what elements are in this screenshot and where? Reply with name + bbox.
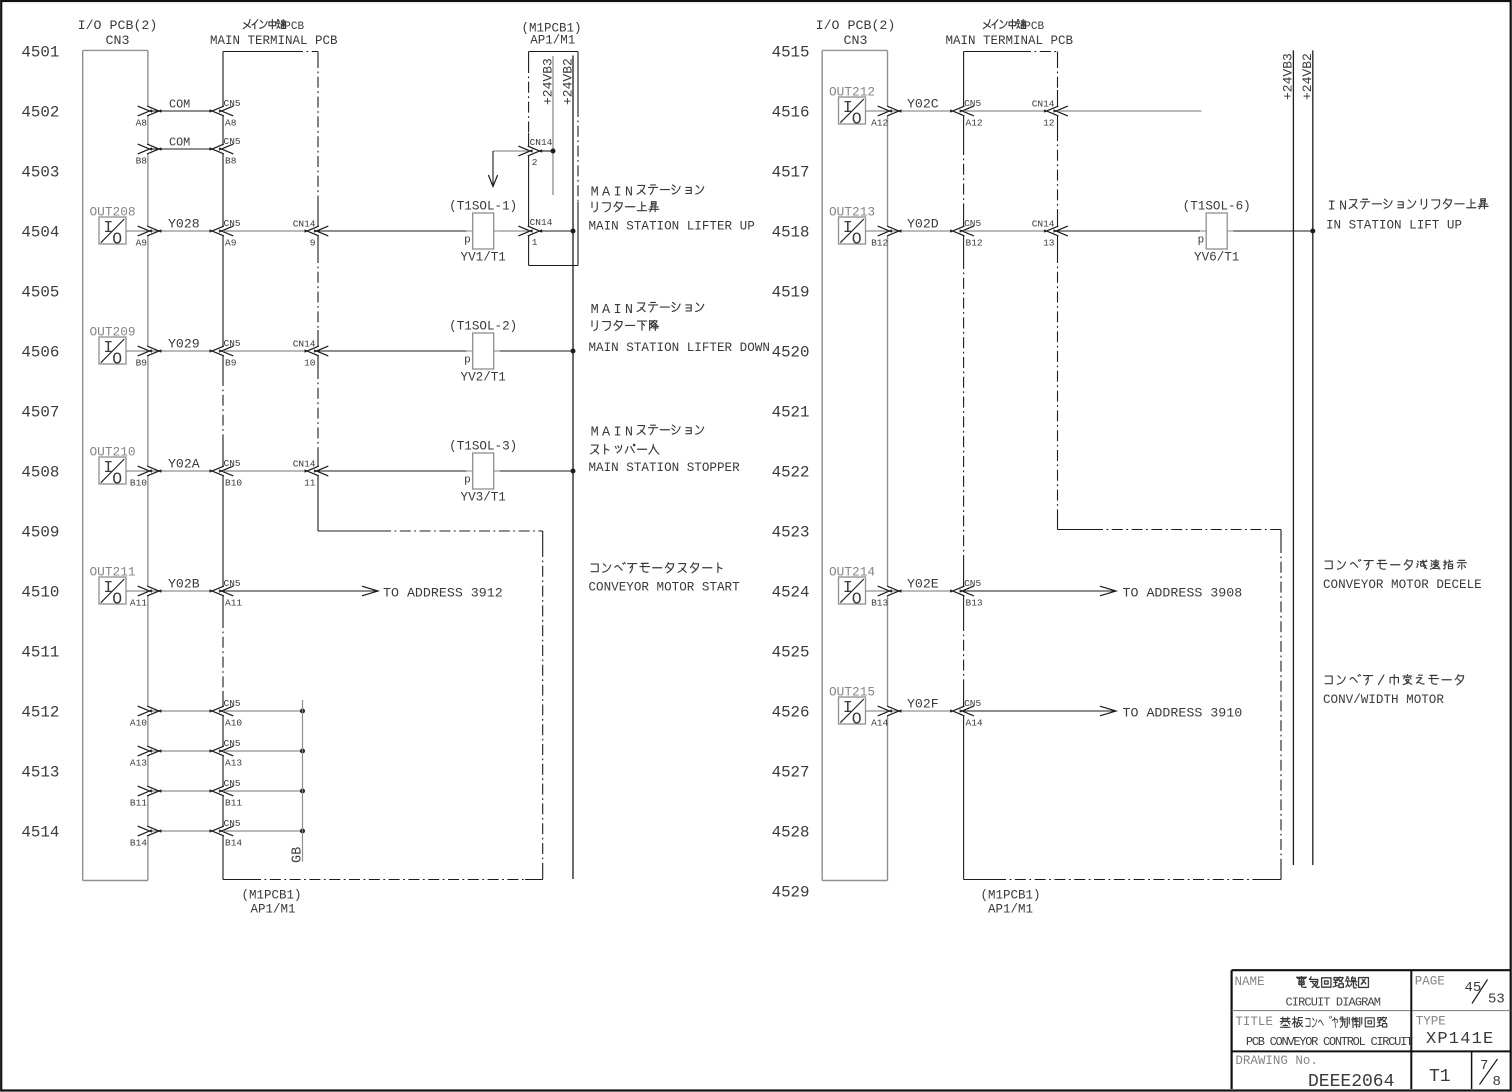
svg-text:p: p — [464, 474, 471, 486]
svg-text:53: 53 — [1488, 991, 1505, 1007]
svg-text:4507: 4507 — [21, 403, 59, 421]
svg-text:CN5: CN5 — [964, 698, 981, 709]
main terminal PCB CN14 edge right — [1057, 52, 1059, 530]
svg-text:N: N — [625, 303, 633, 318]
svg-text:(M1PCB1): (M1PCB1) — [981, 889, 1041, 903]
M1PCB1 AP1/M1 bracket left (dash-dot outline) — [223, 531, 543, 880]
wire CN5 A9 to CN14 9 — [223, 219, 328, 249]
svg-text:4501: 4501 — [21, 43, 59, 61]
svg-text:13: 13 — [1043, 238, 1055, 249]
svg-text:CN14: CN14 — [293, 459, 316, 470]
I/O driver OUT213 — [829, 204, 875, 248]
label in station lift up — [1326, 199, 1488, 233]
main terminal PCB top edge left — [223, 51, 318, 53]
svg-text:TYPE: TYPE — [1416, 1014, 1446, 1028]
svg-text:(T1SOL-3): (T1SOL-3) — [449, 440, 517, 454]
svg-text:M: M — [591, 185, 599, 200]
main terminal PCB top edge right — [964, 51, 1058, 53]
svg-text:A14: A14 — [966, 718, 983, 729]
wire B14 to GB — [130, 818, 305, 849]
svg-text:AP1/M1: AP1/M1 — [530, 34, 575, 48]
wire A13 to GB — [130, 738, 305, 769]
I/O driver OUT214 — [829, 564, 875, 608]
svg-text:O: O — [852, 709, 862, 728]
svg-text:O: O — [112, 229, 122, 248]
label conveyor motor decele — [1323, 559, 1482, 592]
net +24VB3 right — [1281, 50, 1296, 865]
M1PCB1 AP1/M1 box top left — [522, 22, 582, 266]
wire YV1/T1 to AP1/M1 CN14 1 — [500, 217, 576, 248]
wire CN5 B12 to CN14 13 — [964, 219, 1068, 249]
svg-text:Y02A: Y02A — [168, 457, 200, 472]
svg-text:7: 7 — [1480, 1058, 1488, 1074]
label main station stopper — [589, 425, 741, 475]
svg-text:YV2/T1: YV2/T1 — [461, 371, 506, 385]
main terminal PCB header right — [946, 20, 1074, 48]
svg-text:CN14: CN14 — [293, 219, 316, 230]
svg-text:CONVEYOR MOTOR DECELE: CONVEYOR MOTOR DECELE — [1323, 578, 1482, 592]
svg-text:TO ADDRESS 3912: TO ADDRESS 3912 — [383, 586, 503, 601]
wire Y029 — [126, 337, 241, 369]
svg-text:CN5: CN5 — [964, 218, 981, 229]
svg-text:AP1/M1: AP1/M1 — [988, 903, 1033, 917]
svg-text:4514: 4514 — [21, 823, 59, 841]
svg-text:O: O — [852, 109, 862, 128]
main terminal PCB CN5 edge left — [222, 52, 224, 880]
svg-text:+24VB2: +24VB2 — [1300, 53, 1315, 100]
label conv/width motor — [1323, 674, 1464, 707]
svg-text:CN14: CN14 — [1032, 219, 1055, 230]
net GB — [291, 700, 306, 863]
wire +24VB2 CN14 2 feed with down arrow — [488, 137, 555, 186]
svg-text:I: I — [613, 303, 621, 318]
svg-text:4521: 4521 — [772, 403, 810, 421]
svg-text:MAIN TERMINAL PCB: MAIN TERMINAL PCB — [210, 34, 338, 48]
I/O driver OUT209 — [90, 324, 136, 368]
wire CN5 A14 to address 3910 — [964, 706, 1243, 721]
svg-text:TITLE: TITLE — [1235, 1015, 1273, 1029]
svg-text:CN5: CN5 — [224, 338, 241, 349]
svg-text:IN STATION LIFT UP: IN STATION LIFT UP — [1326, 218, 1462, 232]
svg-text:GB: GB — [291, 847, 306, 863]
wire Y02F — [866, 697, 983, 729]
svg-text:PCB CONVEYOR CONTROL CIRCUIT: PCB CONVEYOR CONTROL CIRCUIT — [1246, 1035, 1413, 1049]
title block — [1232, 970, 1511, 1092]
label main station lifter down — [589, 302, 770, 354]
solenoid T1SOL-6 YV6/T1 — [1183, 200, 1251, 265]
svg-text:4527: 4527 — [772, 763, 810, 781]
I/O driver OUT212 — [829, 84, 875, 128]
svg-text:B9: B9 — [225, 358, 237, 369]
svg-text:B13: B13 — [966, 598, 983, 609]
wire A10 to GB — [130, 698, 305, 729]
svg-text:B12: B12 — [966, 238, 983, 249]
svg-text:A10: A10 — [225, 718, 242, 729]
svg-text:A8: A8 — [136, 118, 148, 129]
svg-text:A: A — [602, 185, 611, 200]
svg-text:A9: A9 — [136, 238, 148, 249]
svg-text:4520: 4520 — [772, 343, 810, 361]
svg-text:4510: 4510 — [21, 583, 59, 601]
wire B11 to GB — [130, 778, 305, 809]
svg-text:Y02D: Y02D — [907, 217, 939, 232]
svg-text:4505: 4505 — [21, 283, 59, 301]
wire Y02B — [126, 577, 242, 609]
svg-text:4526: 4526 — [772, 703, 810, 721]
wire CN14 13 to solenoid YV6/T1 — [1058, 230, 1201, 232]
svg-text:XP141E: XP141E — [1426, 1030, 1494, 1049]
svg-text:YV6/T1: YV6/T1 — [1194, 251, 1239, 265]
svg-text:+24VB3: +24VB3 — [1281, 53, 1296, 100]
svg-text:CN14: CN14 — [530, 137, 553, 148]
svg-text:4518: 4518 — [772, 223, 810, 241]
svg-text:4513: 4513 — [21, 763, 59, 781]
svg-text:CN14: CN14 — [293, 339, 316, 350]
svg-text:4508: 4508 — [21, 463, 59, 481]
svg-text:TO ADDRESS 3910: TO ADDRESS 3910 — [1123, 706, 1243, 721]
svg-text:4511: 4511 — [21, 643, 59, 661]
svg-text:CN5: CN5 — [224, 818, 241, 829]
svg-text:A11: A11 — [130, 598, 147, 609]
svg-text:I: I — [1328, 200, 1336, 215]
svg-text:CONVEYOR MOTOR START: CONVEYOR MOTOR START — [589, 581, 741, 595]
I/O PCB(2) CN3 connector box left — [78, 18, 158, 881]
I/O PCB(2) CN3 connector box right — [816, 18, 896, 881]
net +24VB3 left — [540, 56, 555, 195]
svg-text:CN5: CN5 — [224, 136, 241, 147]
wire COM A8 — [136, 98, 241, 129]
svg-text:p: p — [464, 354, 471, 366]
net number column right (4515-4529) — [772, 43, 810, 901]
svg-text:B14: B14 — [130, 838, 147, 849]
svg-text:4522: 4522 — [772, 463, 810, 481]
wire Y02D — [866, 217, 983, 249]
svg-text:MAIN STATION STOPPER: MAIN STATION STOPPER — [589, 461, 741, 475]
svg-text:A11: A11 — [225, 598, 242, 609]
svg-text:NAME: NAME — [1235, 975, 1265, 989]
svg-text:9: 9 — [310, 238, 316, 249]
main terminal PCB CN14 edge left — [317, 52, 319, 532]
svg-text:CN5: CN5 — [964, 578, 981, 589]
svg-text:TO ADDRESS 3908: TO ADDRESS 3908 — [1123, 586, 1243, 601]
svg-text:CONV/WIDTH MOTOR: CONV/WIDTH MOTOR — [1323, 693, 1444, 707]
svg-text:A13: A13 — [225, 758, 242, 769]
svg-text:1: 1 — [532, 237, 538, 248]
svg-text:12: 12 — [1043, 118, 1055, 129]
svg-text:YV1/T1: YV1/T1 — [461, 251, 506, 265]
svg-text:AP1/M1: AP1/M1 — [251, 903, 296, 917]
svg-text:(T1SOL-6): (T1SOL-6) — [1183, 200, 1251, 214]
svg-text:COM: COM — [169, 136, 190, 150]
svg-text:O: O — [112, 349, 122, 368]
svg-text:O: O — [852, 589, 862, 608]
svg-text:O: O — [112, 469, 122, 488]
svg-text:O: O — [112, 589, 122, 608]
svg-text:p: p — [464, 234, 471, 246]
svg-text:4529: 4529 — [772, 883, 810, 901]
wire Y02A — [126, 457, 242, 489]
I/O driver OUT211 — [90, 564, 136, 608]
svg-text:CN5: CN5 — [224, 98, 241, 109]
svg-text:Y02E: Y02E — [907, 577, 939, 592]
svg-text:(M1PCB1): (M1PCB1) — [242, 889, 302, 903]
wire CN14 11 to solenoid YV3/T1 — [318, 470, 467, 472]
net +24VB2 right — [1300, 50, 1315, 865]
label main station lifter up — [589, 185, 755, 234]
svg-text:B10: B10 — [225, 478, 242, 489]
M1PCB1 AP1/M1 bracket right (dash-dot outline) — [964, 530, 1281, 880]
svg-text:4517: 4517 — [772, 163, 810, 181]
I/O driver OUT215 — [829, 684, 875, 728]
wire Y02C — [866, 97, 983, 129]
svg-text:M: M — [591, 303, 599, 318]
svg-text:A14: A14 — [871, 718, 888, 729]
solenoid T1SOL-1 YV1/T1 — [449, 200, 517, 265]
svg-text:4524: 4524 — [772, 583, 810, 601]
svg-text:PCB: PCB — [1024, 21, 1044, 33]
svg-text:A12: A12 — [966, 118, 983, 129]
svg-text:p: p — [1198, 234, 1205, 246]
svg-text:B8: B8 — [225, 156, 237, 167]
svg-text:PCB: PCB — [284, 21, 304, 33]
svg-text:11: 11 — [304, 478, 316, 489]
solenoid T1SOL-3 YV3/T1 — [449, 440, 517, 505]
svg-text:4515: 4515 — [772, 43, 810, 61]
svg-text:CN5: CN5 — [224, 738, 241, 749]
I/O driver OUT210 — [90, 444, 136, 488]
svg-text:DEEE2064: DEEE2064 — [1308, 1072, 1394, 1092]
svg-text:4525: 4525 — [772, 643, 810, 661]
svg-text:N: N — [1339, 200, 1347, 215]
svg-text:B11: B11 — [130, 798, 147, 809]
M1PCB1 AP1/M1 bottom label left — [242, 889, 302, 917]
svg-text:CN5: CN5 — [224, 458, 241, 469]
wire CN5 A11 to address 3912 — [223, 586, 503, 601]
svg-text:B8: B8 — [136, 156, 148, 167]
svg-text:N: N — [625, 185, 633, 200]
svg-text:M: M — [591, 426, 599, 441]
svg-text:(T1SOL-2): (T1SOL-2) — [449, 320, 517, 334]
svg-text:+24VB3: +24VB3 — [540, 58, 555, 105]
svg-text:CIRCUIT DIAGRAM: CIRCUIT DIAGRAM — [1286, 995, 1381, 1009]
svg-text:4516: 4516 — [772, 103, 810, 121]
svg-text:+24VB2: +24VB2 — [560, 58, 575, 105]
svg-text:PAGE: PAGE — [1415, 974, 1445, 988]
svg-text:CN14: CN14 — [530, 217, 553, 228]
svg-text:A9: A9 — [225, 238, 237, 249]
svg-text:A13: A13 — [130, 758, 147, 769]
wire YV6/T1 to +24VB2 right — [1233, 229, 1315, 234]
svg-text:N: N — [625, 426, 633, 441]
wire CN14 10 to solenoid YV2/T1 — [318, 350, 467, 352]
svg-text:B9: B9 — [136, 358, 148, 369]
svg-text:B10: B10 — [130, 478, 147, 489]
wire CN14 9 to solenoid YV1/T1 — [318, 230, 467, 232]
svg-text:B14: B14 — [225, 838, 242, 849]
wire CN14 12 stub — [1058, 110, 1202, 112]
svg-text:I: I — [613, 426, 621, 441]
svg-text:Y02B: Y02B — [168, 577, 200, 592]
svg-text:CN5: CN5 — [224, 218, 241, 229]
svg-text:CN5: CN5 — [964, 98, 981, 109]
svg-text:A: A — [602, 303, 611, 318]
svg-text:I: I — [613, 185, 621, 200]
svg-text:DRAWING No.: DRAWING No. — [1235, 1054, 1318, 1068]
wire YV2/T1 to +24VB2 — [500, 349, 576, 354]
main terminal PCB header left — [210, 20, 338, 48]
svg-text:Y02F: Y02F — [907, 697, 939, 712]
svg-text:O: O — [852, 229, 862, 248]
svg-text:Y028: Y028 — [168, 217, 200, 232]
svg-text:4523: 4523 — [772, 523, 810, 541]
svg-text:MAIN STATION LIFTER DOWN: MAIN STATION LIFTER DOWN — [589, 341, 770, 355]
wire COM B8 — [136, 136, 241, 167]
svg-text:MAIN STATION LIFTER UP: MAIN STATION LIFTER UP — [589, 220, 755, 234]
svg-text:4528: 4528 — [772, 823, 810, 841]
svg-text:8: 8 — [1493, 1074, 1501, 1090]
svg-text:CN5: CN5 — [224, 778, 241, 789]
svg-text:T1: T1 — [1429, 1067, 1451, 1087]
solenoid T1SOL-2 YV2/T1 — [449, 320, 517, 385]
svg-text:A8: A8 — [225, 118, 237, 129]
M1PCB1 AP1/M1 bottom label right — [981, 889, 1041, 917]
main terminal PCB CN5 edge right — [963, 52, 965, 880]
svg-text:B13: B13 — [871, 598, 888, 609]
label conveyor motor start — [589, 562, 741, 594]
svg-text:4519: 4519 — [772, 283, 810, 301]
svg-text:CN5: CN5 — [224, 698, 241, 709]
svg-text:CN5: CN5 — [224, 578, 241, 589]
svg-text:A: A — [602, 426, 611, 441]
svg-text:CN14: CN14 — [1032, 99, 1055, 110]
svg-text:B11: B11 — [225, 798, 242, 809]
wire CN5 B9 to CN14 10 — [223, 339, 328, 369]
svg-text:10: 10 — [304, 358, 316, 369]
svg-text:4506: 4506 — [21, 343, 59, 361]
svg-text:4512: 4512 — [21, 703, 59, 721]
wire CN5 B13 to address 3908 — [964, 586, 1243, 601]
wire Y02E — [866, 577, 983, 609]
svg-text:B12: B12 — [871, 238, 888, 249]
svg-text:I/O PCB(2): I/O PCB(2) — [78, 18, 158, 33]
svg-text:A10: A10 — [130, 718, 147, 729]
net +24VB2 left — [560, 56, 575, 880]
wire Y028 — [126, 217, 241, 249]
svg-text:4502: 4502 — [21, 103, 59, 121]
svg-text:I/O PCB(2): I/O PCB(2) — [816, 18, 896, 33]
svg-text:2: 2 — [532, 157, 538, 168]
wire CN5 A12 to CN14 12 — [964, 99, 1068, 129]
wire CN5 B10 to CN14 11 — [223, 459, 328, 489]
net number column left (4501-4514) — [21, 43, 59, 841]
svg-text:MAIN TERMINAL PCB: MAIN TERMINAL PCB — [946, 34, 1074, 48]
svg-text:(T1SOL-1): (T1SOL-1) — [449, 200, 517, 214]
I/O driver OUT208 — [90, 204, 136, 248]
svg-text:4509: 4509 — [21, 523, 59, 541]
svg-text:COM: COM — [169, 98, 190, 112]
svg-text:A12: A12 — [871, 118, 888, 129]
wire YV3/T1 to +24VB2 — [500, 469, 576, 474]
svg-text:CN3: CN3 — [106, 33, 130, 48]
svg-text:Y029: Y029 — [168, 337, 200, 352]
svg-text:4504: 4504 — [21, 223, 59, 241]
svg-text:Y02C: Y02C — [907, 97, 939, 112]
svg-text:CN3: CN3 — [844, 33, 868, 48]
svg-text:4503: 4503 — [21, 163, 59, 181]
svg-text:YV3/T1: YV3/T1 — [461, 491, 506, 505]
